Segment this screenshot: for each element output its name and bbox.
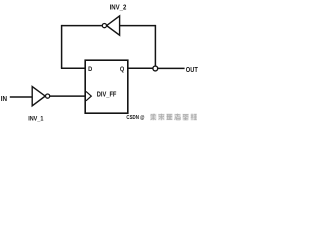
svg-text:INV_2: INV_2 [110,2,127,11]
inverter INV_1 triangle (pointing right) [32,87,45,106]
wire: D input horizontal into flip-flop [61,67,85,69]
svg-text:INV_1: INV_1 [28,115,43,122]
inverter INV_1 output bubble [46,94,50,98]
svg-text:Q: Q [120,66,124,73]
inverter INV_2 output bubble [102,24,106,28]
svg-text:DIV_FF: DIV_FF [97,89,117,98]
svg-text:D: D [88,66,92,73]
wire: junction circle to OUT label [158,67,185,69]
inverter INV_2 triangle (pointing left) [107,16,120,35]
flip-flop clock edge triangle [86,91,91,100]
wire: Q output from flip-flop right edge to junction circle [128,67,153,69]
svg-text:IN: IN [1,96,7,103]
watermark CJK glyph blocks [150,114,197,121]
flip-flop DIV_FF box [85,60,128,113]
wire: feedback top-left segment from INV_2 output bubble to left vertical [62,25,103,27]
wire: feedback left vertical down to D input level [61,25,63,68]
output junction open circle [153,66,158,71]
svg-text:OUT: OUT [186,67,199,74]
wire: feedback right vertical from top corner down to output junction [154,25,156,66]
wire: IN stub to INV_1 input [10,96,32,98]
wire: INV_1 output bubble to flip-flop clock pin [50,95,85,97]
wire: INV_2 input from feedback right vertical to triangle base [120,25,156,27]
svg-text:CSDN @: CSDN @ [126,115,144,121]
